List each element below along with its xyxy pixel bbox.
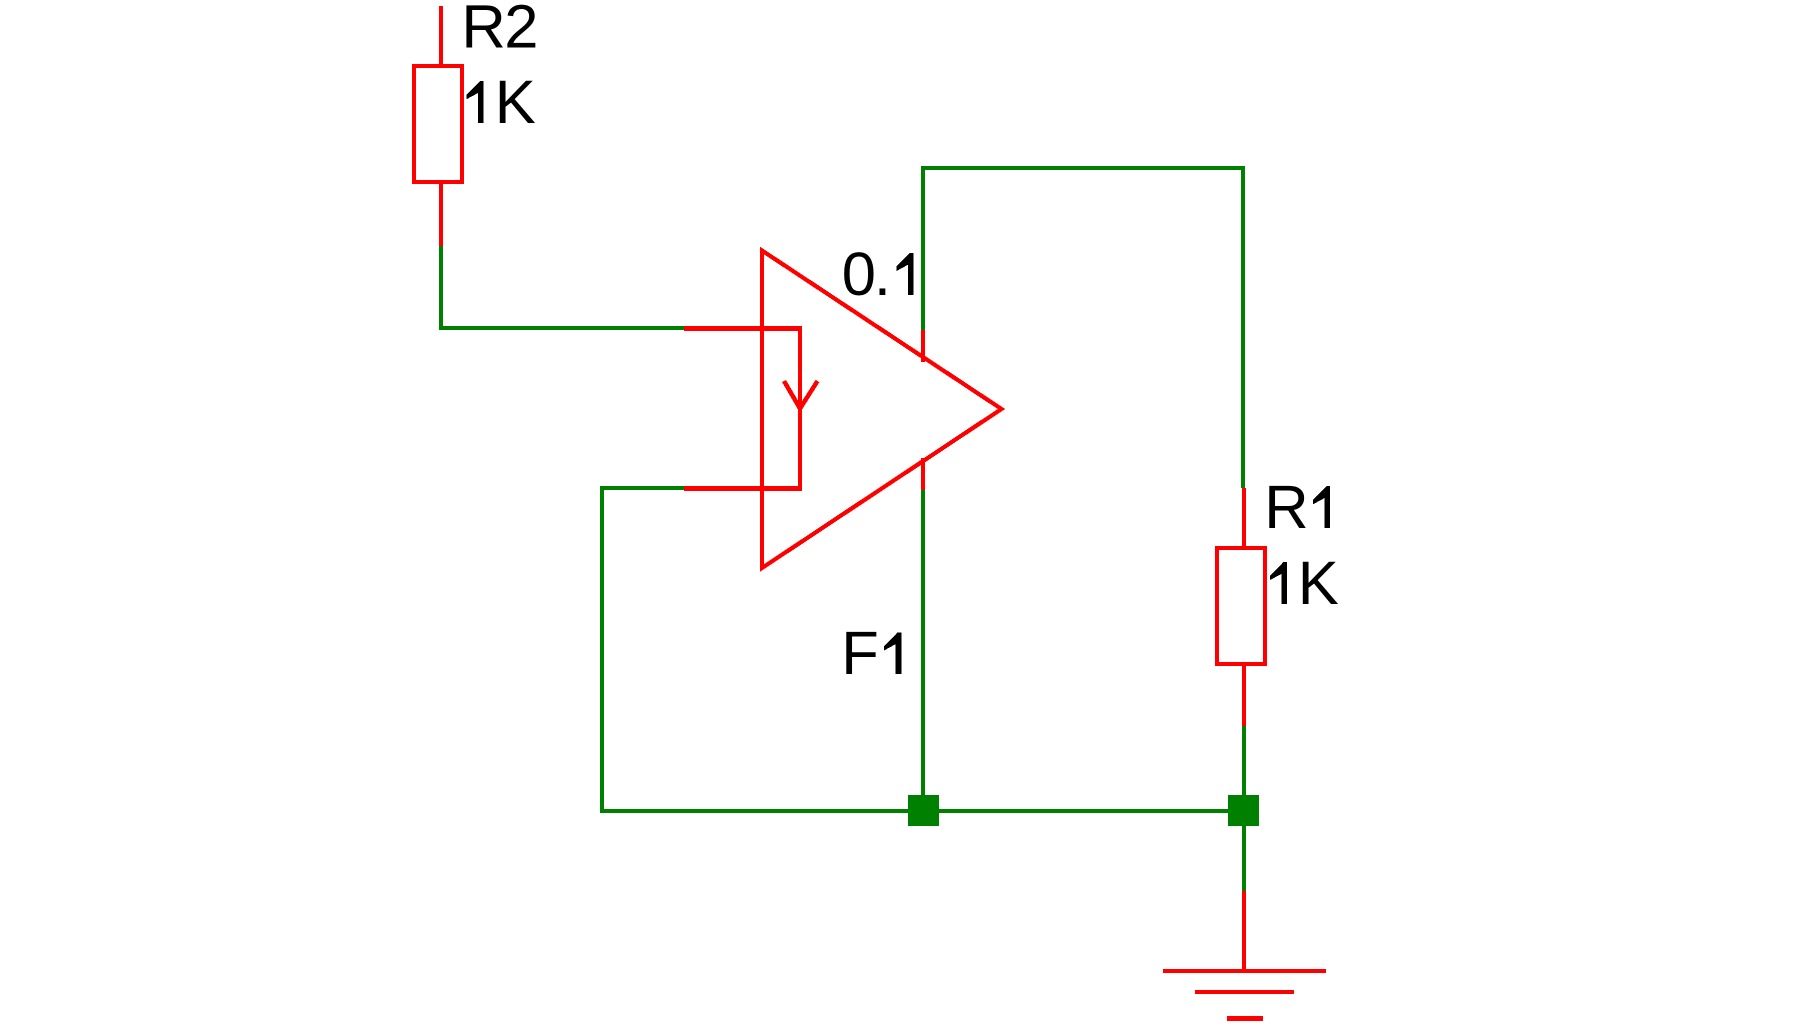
node B junction: [1228, 795, 1259, 826]
digit 1 of label F1: [884, 632, 901, 674]
op-amp U1 : CCCS F1 triangle: [762, 251, 1002, 569]
svg-text:0.: 0.: [842, 240, 891, 309]
pin input+ of F1: [684, 326, 802, 331]
wire from F1 input- going left: [600, 486, 684, 490]
pin top of R1: [1242, 488, 1246, 547]
digit 1 of gain 0.1: [897, 253, 914, 295]
svg-text:R: R: [1264, 473, 1308, 542]
svg-text:K: K: [495, 68, 536, 137]
body of R2: [412, 64, 416, 184]
ground bar 2: [1195, 990, 1294, 994]
wire from R2 bottom to F1 input+: [439, 246, 443, 330]
wire down right side to R1: [1241, 166, 1245, 488]
wire vertical down on left: [600, 486, 604, 812]
ground bar 3: [1227, 1016, 1263, 1021]
resistor R1: [1215, 473, 1339, 726]
pin input- of F1: [684, 486, 802, 491]
svg-text:R2: R2: [461, 0, 538, 62]
wire from F1 output top up: [921, 166, 925, 330]
resistor R2: [412, 0, 538, 246]
wire from node B down to ground: [1242, 826, 1246, 891]
pin output bottom of F1: [921, 458, 925, 490]
svg-text:K: K: [1298, 549, 1339, 618]
wire feedback top horizontal: [921, 166, 1245, 170]
ground bar 1: [1163, 969, 1326, 973]
digit 1 of label R1: [1313, 486, 1330, 528]
digit 1 of R1 value: [1270, 562, 1287, 604]
digit 1 of R2 value: [466, 81, 483, 123]
wire from F1 output bottom down to node A: [921, 490, 925, 811]
pin bottom of R2: [439, 184, 443, 246]
pin top of R2: [439, 6, 443, 64]
node A junction: [908, 795, 939, 826]
pin bottom of R1: [1242, 666, 1246, 726]
wire from R1 bottom to node B: [1242, 726, 1246, 811]
pin output top of F1: [921, 330, 925, 362]
ground stem: [1242, 891, 1246, 971]
body of R1: [1215, 546, 1219, 666]
svg-text:F: F: [841, 619, 879, 688]
wire bottom horizontal to node B: [600, 809, 1245, 813]
internal branch of F1: [798, 326, 802, 491]
wire horizontal to F1 input+: [439, 326, 684, 330]
arrow of F1 current direction: [784, 381, 818, 409]
ground: [1163, 891, 1326, 1021]
